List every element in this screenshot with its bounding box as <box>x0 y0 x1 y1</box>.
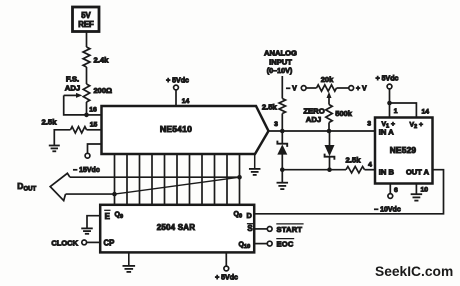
node junction G <box>237 175 242 180</box>
svg-text:D: D <box>247 211 252 220</box>
voltage reference U3 5V REF box <box>73 7 100 32</box>
svg-text:6: 6 <box>394 187 398 194</box>
svg-text:E: E <box>105 212 110 221</box>
svg-text:ANALOG: ANALOG <box>264 49 297 58</box>
wire bit line 9 <box>214 154 216 205</box>
svg-text:16: 16 <box>89 107 97 114</box>
resistor R1 2.4k <box>83 47 109 67</box>
svg-text:500k: 500k <box>335 109 353 118</box>
svg-text:START: START <box>277 225 303 234</box>
svg-text:10: 10 <box>421 187 429 194</box>
wire R1 to R2 pot <box>86 67 88 84</box>
wire S to START <box>254 228 267 230</box>
ground G4 DAC <box>249 154 261 175</box>
svg-text:S: S <box>247 224 252 233</box>
wire Q10 to EOC <box>254 243 267 245</box>
wire DOUT bottom line <box>66 193 115 195</box>
svg-text:F.S.: F.S. <box>66 75 79 84</box>
label F.S. ADJ <box>65 75 80 93</box>
wire clamp node <box>282 169 346 171</box>
svg-text:3: 3 <box>274 121 278 128</box>
DOUT bus arrow <box>50 173 70 200</box>
terminal -15Vdc <box>73 153 100 174</box>
wire bit line 5 <box>164 154 166 205</box>
wire R6 to node wire <box>328 123 330 132</box>
resistor R3 2.5k <box>42 118 87 134</box>
pot wiper arrow <box>327 92 332 105</box>
wire pot bottom to node 16 <box>86 102 88 115</box>
node junction A <box>280 129 285 134</box>
terminal +5Vdc SAR <box>215 266 238 281</box>
terminal +V <box>349 86 367 93</box>
svg-text:ADJ: ADJ <box>306 115 321 124</box>
svg-text:INPUT: INPUT <box>269 57 292 66</box>
wire SAR ground <box>128 252 130 265</box>
svg-text:20k: 20k <box>321 75 334 84</box>
wire pin to -15Vdc <box>88 144 102 153</box>
svg-text:+ V: + V <box>356 86 367 93</box>
label ZERO ADJ <box>303 107 324 125</box>
wire SAR +5V <box>225 252 227 266</box>
wire DAC output node <box>269 120 376 131</box>
comparator U2 NE529 <box>375 118 433 184</box>
wire bit line 6 <box>176 154 178 205</box>
svg-text:CP: CP <box>104 239 115 248</box>
wire bit line 2 <box>126 154 128 205</box>
ground G6 <box>123 265 136 267</box>
wire analog input <box>281 76 283 99</box>
ground G1 <box>49 145 60 147</box>
register U4 2504 SAR <box>100 205 254 253</box>
svg-text:14: 14 <box>422 109 430 116</box>
resistor R6 500k <box>326 105 353 123</box>
wire CR1 to ground <box>281 170 283 183</box>
svg-text:2.5k: 2.5k <box>346 155 362 164</box>
svg-text:– V: – V <box>286 86 297 93</box>
wire bit line 11 <box>239 154 241 205</box>
svg-text:5V: 5V <box>81 11 91 20</box>
wire to pin 16 <box>87 107 102 115</box>
svg-text:– 15Vdc: – 15Vdc <box>73 167 100 174</box>
svg-text:– 10Vdc: – 10Vdc <box>374 207 401 214</box>
svg-text:NE5410: NE5410 <box>160 124 192 134</box>
wire bit line 8 <box>201 154 203 205</box>
svg-text:(0–10V): (0–10V) <box>267 66 293 75</box>
svg-text:2.5k: 2.5k <box>42 118 58 127</box>
node junction C <box>280 167 285 172</box>
terminal EOC <box>267 239 294 249</box>
terminal START <box>267 224 303 234</box>
node junction B <box>327 129 332 134</box>
wire DOUT top line <box>70 176 240 178</box>
wire R3 to pin 15 <box>87 122 102 130</box>
svg-text:IN B: IN B <box>379 168 395 177</box>
DAC U1 NE5410 <box>102 106 269 154</box>
wire OUT A to D input <box>254 170 443 214</box>
wire bit line 3 <box>139 154 141 205</box>
terminal +5Vdc NE529 <box>376 76 399 89</box>
svg-text:3: 3 <box>367 120 371 127</box>
svg-text:+ 5Vdc: + 5Vdc <box>376 76 399 83</box>
svg-text:15: 15 <box>90 122 98 129</box>
svg-text:2.4k: 2.4k <box>94 56 110 65</box>
svg-text:REF: REF <box>78 20 94 29</box>
ground G3 <box>411 193 423 195</box>
svg-text:DOUT: DOUT <box>17 181 36 192</box>
potentiometer R2 200 ohm <box>64 84 112 102</box>
wire bit line 4 <box>151 154 153 205</box>
label ANALOG INPUT <box>264 49 297 75</box>
node junction E <box>387 101 392 106</box>
svg-text:SeekIC.com: SeekIC.com <box>375 264 453 279</box>
node junction F <box>112 192 117 197</box>
wire R4 to node3 <box>281 114 283 132</box>
wire bit line 7 <box>189 154 191 205</box>
ground G2 <box>277 182 289 184</box>
wire diagonal tap <box>115 177 240 194</box>
svg-text:CLOCK: CLOCK <box>51 238 78 247</box>
svg-text:2.5k: 2.5k <box>262 102 278 111</box>
wire R7 to IN B pin 4 <box>365 162 376 170</box>
svg-text:+ 5Vdc: + 5Vdc <box>215 275 238 282</box>
svg-text:4: 4 <box>368 162 372 169</box>
wire pot to +V <box>337 87 349 89</box>
node junction pin16 <box>84 113 89 118</box>
ground G5 <box>81 227 93 229</box>
terminal CLOCK <box>82 240 87 245</box>
svg-text:1: 1 <box>394 108 398 115</box>
wire pin 10 <box>416 184 428 195</box>
wire R3 to ground <box>54 130 70 146</box>
svg-text:OUT A: OUT A <box>406 168 430 177</box>
svg-text:IN A: IN A <box>379 128 394 137</box>
resistor R7 2.5k <box>346 155 365 173</box>
svg-text:200Ω: 200Ω <box>94 86 113 95</box>
wire bit line 10 <box>226 154 228 205</box>
resistor R4 2.5k input <box>262 99 286 114</box>
svg-text:EOC: EOC <box>277 240 294 249</box>
wire pot wiper loop <box>64 95 87 115</box>
wire 5V REF to R1 <box>86 32 88 48</box>
node junction D <box>327 167 332 172</box>
terminal -10Vdc <box>374 194 401 214</box>
svg-text:14: 14 <box>182 98 190 105</box>
wire +5V to pins 1 14 <box>390 89 430 118</box>
svg-text:NE529: NE529 <box>390 145 417 155</box>
terminal +5Vdc pin 14 <box>166 78 189 107</box>
diode CR1 zener <box>277 131 287 170</box>
wire -V to pot <box>306 87 316 89</box>
svg-text:+ 5Vdc: + 5Vdc <box>166 78 189 85</box>
potentiometer R5 20k <box>317 75 337 91</box>
label -V terminal <box>286 86 306 93</box>
svg-text:2504 SAR: 2504 SAR <box>157 223 196 232</box>
wire bit line 1 <box>114 154 116 205</box>
wire E to ground <box>87 216 100 229</box>
svg-text:ADJ: ADJ <box>65 84 80 93</box>
wire CLOCK to CP <box>87 241 101 243</box>
diode CR2 zener <box>325 131 335 170</box>
wire pin 6 <box>390 184 398 195</box>
